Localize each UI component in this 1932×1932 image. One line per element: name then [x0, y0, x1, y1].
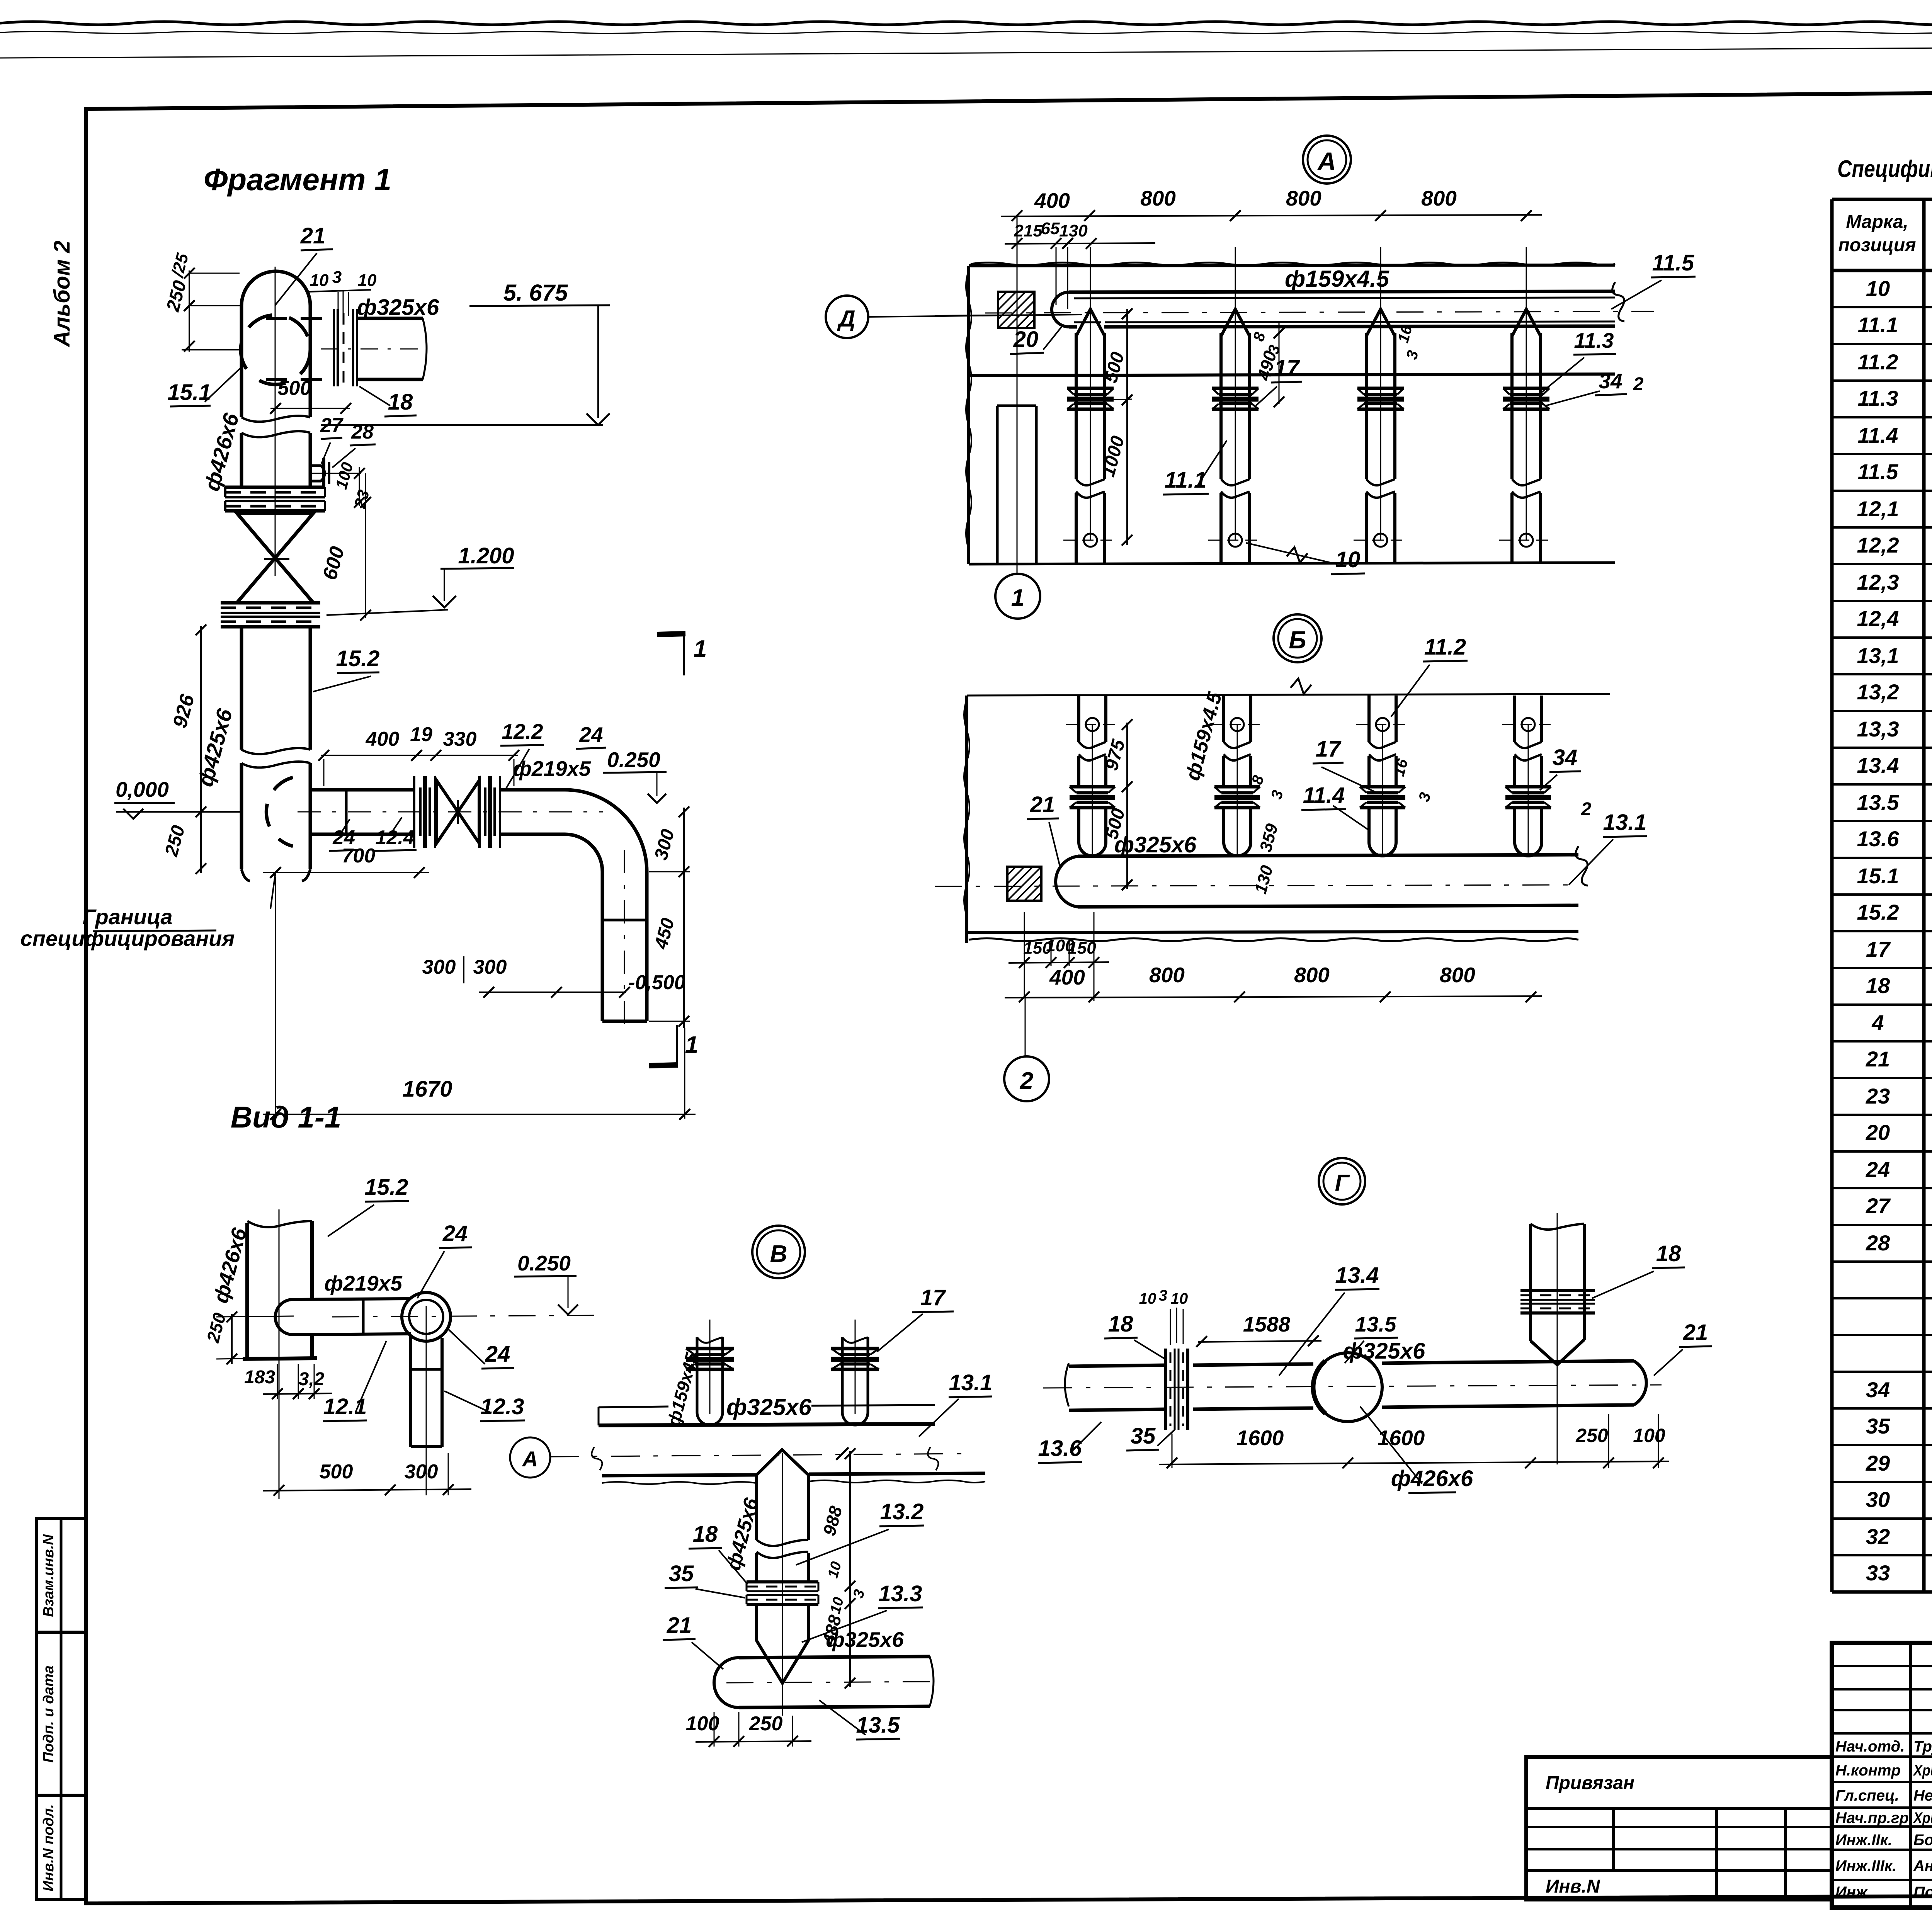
svg-text:21: 21 [1030, 792, 1055, 817]
svg-text:13,3: 13,3 [1857, 717, 1899, 741]
svg-text:800: 800 [1140, 186, 1176, 210]
svg-text:ф425х6: ф425х6 [193, 706, 237, 789]
svg-text:600: 600 [318, 544, 349, 582]
svg-text:24: 24 [442, 1221, 468, 1246]
svg-text:0,000: 0,000 [116, 777, 169, 801]
svg-text:13.5: 13.5 [1355, 1312, 1396, 1336]
svg-text:0.250: 0.250 [517, 1251, 571, 1275]
svg-text:12,3: 12,3 [1857, 570, 1899, 594]
svg-text:3: 3 [1403, 349, 1422, 361]
svg-text:11.2: 11.2 [1424, 634, 1466, 660]
svg-text:Нечаева: Нечаева [1913, 1787, 1932, 1804]
svg-text:65: 65 [1041, 219, 1060, 238]
svg-text:ф219х5: ф219х5 [324, 1271, 403, 1295]
svg-text:ф325х6: ф325х6 [1114, 832, 1197, 857]
svg-text:100: 100 [1633, 1425, 1665, 1446]
svg-text:13.3: 13.3 [879, 1581, 922, 1606]
svg-text:24: 24 [1866, 1157, 1890, 1182]
svg-text:2: 2 [1020, 1068, 1033, 1094]
svg-text:Антонова: Антонова [1913, 1857, 1932, 1874]
svg-text:11.4: 11.4 [1858, 423, 1898, 447]
svg-text:3,2: 3,2 [299, 1369, 325, 1389]
svg-text:Христофороди: Христофороди [1913, 1762, 1932, 1779]
svg-text:10: 10 [825, 1560, 845, 1580]
svg-text:13.4: 13.4 [1857, 753, 1899, 777]
svg-text:Подп. и дата: Подп. и дата [41, 1665, 57, 1763]
svg-text:3: 3 [850, 1588, 868, 1600]
svg-text:Н.контр: Н.контр [1835, 1762, 1901, 1779]
svg-text:ф159х4.5: ф159х4.5 [1285, 266, 1390, 292]
svg-text:34: 34 [1866, 1378, 1890, 1402]
svg-text:ф426х6: ф426х6 [209, 1225, 251, 1306]
svg-text:18: 18 [388, 389, 413, 415]
svg-text:11.5: 11.5 [1858, 459, 1899, 484]
svg-text:Гл.спец.: Гл.спец. [1835, 1787, 1899, 1804]
svg-text:Инв.N: Инв.N [1546, 1876, 1600, 1897]
svg-text:250: 250 [202, 1311, 230, 1345]
svg-text:24: 24 [579, 723, 603, 747]
svg-text:Христофориди: Христофориди [1913, 1810, 1932, 1827]
svg-text:11.2: 11.2 [1858, 350, 1898, 374]
svg-text:Инв.N подл.: Инв.N подл. [41, 1804, 57, 1891]
svg-text:800: 800 [1440, 963, 1475, 987]
svg-text:15.2: 15.2 [336, 646, 380, 671]
svg-text:27: 27 [320, 414, 344, 437]
svg-text:ф325х6: ф325х6 [826, 1628, 904, 1651]
svg-text:18: 18 [1108, 1311, 1133, 1337]
svg-text:10: 10 [358, 271, 377, 290]
svg-text:12,2: 12,2 [1857, 533, 1899, 557]
svg-text:13,1: 13,1 [1857, 643, 1899, 668]
svg-text:10: 10 [1139, 1290, 1156, 1307]
svg-text:130: 130 [1251, 863, 1277, 896]
svg-text:215: 215 [1014, 221, 1043, 240]
svg-text:20: 20 [1013, 327, 1039, 352]
svg-text:1670: 1670 [402, 1077, 452, 1102]
svg-text:27: 27 [1866, 1194, 1891, 1218]
svg-text:12.4: 12.4 [375, 827, 414, 849]
svg-text:ф426х6: ф426х6 [1391, 1466, 1473, 1491]
svg-text:Альбом 2: Альбом 2 [49, 240, 75, 347]
svg-text:Взам.инв.N: Взам.инв.N [41, 1534, 57, 1617]
svg-text:17: 17 [1866, 937, 1891, 961]
svg-text:Вид 1-1: Вид 1-1 [231, 1100, 342, 1134]
svg-text:13.5: 13.5 [1857, 790, 1900, 815]
svg-text:21: 21 [1866, 1047, 1890, 1071]
svg-text:130: 130 [1059, 221, 1088, 240]
svg-text:12.3: 12.3 [481, 1394, 524, 1419]
svg-text:34: 34 [1553, 745, 1578, 770]
svg-text:ф325х6: ф325х6 [726, 1394, 812, 1420]
svg-text:29: 29 [1866, 1451, 1890, 1475]
svg-text:11.4: 11.4 [1303, 783, 1345, 808]
svg-text:ф426х6: ф426х6 [199, 410, 243, 493]
svg-text:Б: Б [1289, 626, 1306, 654]
svg-text:13.6: 13.6 [1857, 827, 1900, 851]
svg-text:33: 33 [1866, 1561, 1890, 1585]
svg-text:ф219х5: ф219х5 [513, 757, 591, 781]
svg-text:35: 35 [1866, 1414, 1890, 1438]
svg-text:17: 17 [920, 1285, 946, 1310]
svg-text:17: 17 [1316, 736, 1342, 762]
svg-text:23: 23 [1866, 1084, 1890, 1108]
svg-text:13.4: 13.4 [1335, 1263, 1379, 1288]
svg-text:13,2: 13,2 [1857, 680, 1899, 704]
svg-text:Привязан: Привязан [1546, 1773, 1634, 1793]
svg-text:Трубников: Трубников [1913, 1738, 1932, 1755]
svg-text:ф325х6: ф325х6 [357, 295, 439, 320]
svg-text:Полоновская: Полоновская [1913, 1884, 1932, 1901]
svg-text:13.2: 13.2 [880, 1499, 924, 1524]
svg-text:250: 250 [1575, 1425, 1608, 1446]
svg-text:Инж.: Инж. [1835, 1884, 1872, 1901]
svg-text:Инж.IIк.: Инж.IIк. [1835, 1832, 1892, 1849]
svg-text:11.1: 11.1 [1858, 313, 1898, 337]
svg-text:Марка,: Марка, [1846, 212, 1908, 232]
svg-text:13.1: 13.1 [1603, 810, 1647, 835]
svg-text:1600: 1600 [1236, 1426, 1284, 1450]
svg-text:10: 10 [1866, 276, 1890, 301]
svg-text:21: 21 [1683, 1320, 1708, 1345]
svg-text:20: 20 [1866, 1120, 1890, 1145]
svg-text:35: 35 [1131, 1423, 1156, 1449]
svg-text:300: 300 [651, 827, 679, 862]
svg-text:400: 400 [366, 728, 400, 750]
svg-text:2: 2 [1581, 799, 1592, 820]
svg-text:Граница: Граница [83, 905, 173, 929]
svg-text:34: 34 [1599, 369, 1622, 393]
svg-text:1: 1 [694, 636, 707, 662]
svg-text:12.1: 12.1 [323, 1394, 367, 1419]
svg-text:10: 10 [1171, 1290, 1188, 1307]
svg-text:13.1: 13.1 [949, 1370, 993, 1395]
svg-text:-0,500: -0,500 [628, 971, 685, 994]
svg-text:позиция: позиция [1838, 235, 1916, 255]
svg-text:Нач.отд.: Нач.отд. [1835, 1738, 1905, 1755]
svg-text:30: 30 [1866, 1487, 1890, 1512]
svg-text:800: 800 [1294, 963, 1330, 987]
svg-text:250: 250 [161, 823, 189, 859]
svg-text:Г: Г [1335, 1170, 1350, 1196]
svg-text:21: 21 [300, 223, 326, 248]
svg-text:500: 500 [278, 377, 311, 400]
svg-text:15.2: 15.2 [1857, 900, 1899, 924]
svg-text:18: 18 [1656, 1241, 1681, 1266]
svg-text:10: 10 [827, 1595, 847, 1616]
svg-text:Спецификация материалов на: Спецификация материалов на водораспредел… [1837, 156, 1932, 182]
svg-text:А: А [522, 1447, 538, 1471]
svg-text:183: 183 [244, 1367, 275, 1388]
svg-text:300: 300 [422, 956, 456, 978]
svg-text:Инж.IIIк.: Инж.IIIк. [1835, 1857, 1896, 1874]
svg-text:ф159х4.5: ф159х4.5 [1181, 689, 1226, 783]
svg-text:В: В [770, 1241, 787, 1267]
svg-text:250: 250 [749, 1713, 783, 1735]
svg-text:1600: 1600 [1378, 1426, 1425, 1450]
svg-text:35: 35 [669, 1561, 694, 1586]
svg-text:400: 400 [1034, 189, 1070, 213]
svg-text:15.1: 15.1 [1857, 864, 1899, 888]
svg-text:300: 300 [405, 1461, 438, 1483]
svg-text:13.5: 13.5 [856, 1713, 900, 1738]
svg-text:988: 988 [819, 1504, 846, 1538]
svg-text:3: 3 [332, 268, 342, 287]
svg-text:3: 3 [1159, 1287, 1167, 1304]
svg-text:330: 330 [443, 728, 477, 750]
svg-text:500: 500 [320, 1461, 353, 1483]
svg-text:1588: 1588 [1243, 1312, 1291, 1336]
svg-text:28: 28 [1866, 1231, 1890, 1255]
svg-text:800: 800 [1421, 186, 1457, 210]
svg-text:19: 19 [410, 723, 432, 746]
svg-text:Нач.пр.гр.: Нач.пр.гр. [1835, 1810, 1913, 1827]
svg-text:А: А [1317, 147, 1336, 175]
svg-text:18: 18 [1866, 973, 1890, 998]
svg-text:450: 450 [651, 916, 679, 951]
svg-text:0.250: 0.250 [607, 748, 660, 772]
svg-text:16: 16 [1390, 757, 1411, 778]
svg-text:21: 21 [667, 1613, 692, 1638]
svg-text:3: 3 [1268, 788, 1286, 801]
svg-text:400: 400 [1049, 965, 1085, 989]
svg-text:1.200: 1.200 [458, 543, 514, 568]
svg-text:11.3: 11.3 [1574, 328, 1614, 352]
svg-text:10: 10 [1335, 547, 1361, 572]
svg-text:3: 3 [1415, 791, 1434, 803]
svg-text:18: 18 [693, 1522, 718, 1547]
svg-text:15.2: 15.2 [365, 1175, 408, 1200]
svg-text:11.3: 11.3 [1858, 386, 1898, 410]
svg-text:12.2: 12.2 [502, 719, 543, 743]
svg-text:Д: Д [837, 306, 855, 332]
svg-text:1: 1 [1011, 585, 1024, 611]
svg-text:12,4: 12,4 [1857, 606, 1899, 631]
svg-text:359: 359 [1256, 821, 1282, 854]
svg-text:24: 24 [485, 1342, 510, 1367]
svg-text:17: 17 [1274, 355, 1300, 381]
svg-text:1: 1 [685, 1032, 698, 1058]
svg-text:Богачево: Богачево [1913, 1832, 1932, 1849]
svg-text:4: 4 [1871, 1010, 1884, 1035]
svg-text:800: 800 [1286, 186, 1321, 210]
svg-text:11.5: 11.5 [1652, 250, 1694, 276]
svg-text:28: 28 [351, 421, 374, 443]
svg-text:800: 800 [1149, 963, 1185, 987]
svg-text:12,1: 12,1 [1857, 497, 1899, 521]
svg-text:926: 926 [168, 692, 199, 730]
svg-text:1000: 1000 [1098, 434, 1129, 479]
svg-text:2: 2 [1633, 374, 1644, 395]
svg-text:5. 675: 5. 675 [503, 280, 568, 306]
svg-text:10: 10 [310, 271, 329, 290]
svg-text:300: 300 [473, 956, 507, 978]
svg-text:150: 150 [1068, 939, 1096, 957]
svg-text:32: 32 [1866, 1524, 1890, 1549]
svg-text:8: 8 [1250, 330, 1269, 343]
svg-text:700: 700 [342, 845, 376, 867]
svg-text:Фрагмент 1: Фрагмент 1 [204, 162, 391, 197]
